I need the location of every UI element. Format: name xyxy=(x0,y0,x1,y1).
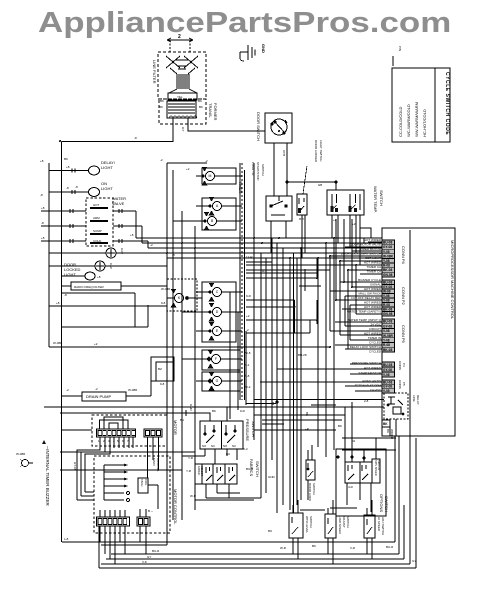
svg-text:LOW SPEED: LOW SPEED xyxy=(338,516,342,535)
svg-text:YEL: YEL xyxy=(177,95,183,99)
svg-text:CONN P4: CONN P4 xyxy=(401,246,406,265)
svg-text:SIGNAL: SIGNAL xyxy=(370,283,381,287)
svg-text:A: A xyxy=(216,204,219,208)
svg-text:W-R: W-R xyxy=(280,546,287,550)
svg-text:SWITCH: SWITCH xyxy=(261,164,265,176)
svg-text:SWITCH: SWITCH xyxy=(379,190,384,206)
svg-text:HOT WIRED: HOT WIRED xyxy=(364,238,382,242)
svg-text:BK: BK xyxy=(386,429,390,433)
svg-text:V-8: V-8 xyxy=(142,560,147,564)
svg-text:CC-COLD/COLD: CC-COLD/COLD xyxy=(398,106,403,137)
svg-text:VALVE: VALVE xyxy=(112,201,125,206)
svg-text:W-08R: W-08R xyxy=(161,287,171,291)
svg-text:-2: -2 xyxy=(205,159,208,163)
svg-text:CYCLED: CYCLED xyxy=(369,350,382,354)
svg-text:TRANS-: TRANS- xyxy=(208,103,213,119)
svg-text:ARM: ARM xyxy=(93,216,100,220)
svg-text:SWITCH: SWITCH xyxy=(251,421,256,437)
svg-text:R-08: R-08 xyxy=(383,343,390,347)
svg-text:HOT WIRED: HOT WIRED xyxy=(364,332,382,336)
svg-text:+2: +2 xyxy=(352,222,356,226)
svg-text:LIGHT SWITCH: LIGHT SWITCH xyxy=(319,140,323,161)
svg-text:TIMER CA: TIMER CA xyxy=(367,265,381,269)
svg-text:DET LIGHT: DET LIGHT xyxy=(365,256,381,260)
svg-text:P4: P4 xyxy=(402,363,406,367)
svg-text:BK: BK xyxy=(199,105,203,109)
svg-text:W-R: W-R xyxy=(190,494,197,498)
svg-text:CONN: CONN xyxy=(398,380,402,389)
svg-text:W-2: W-2 xyxy=(245,385,251,389)
svg-text:BK: BK xyxy=(64,157,68,161)
svg-text:MOTOR: MOTOR xyxy=(173,420,178,435)
svg-text:-2: -2 xyxy=(66,388,69,392)
svg-text:G: G xyxy=(216,379,219,383)
svg-text:W-08: W-08 xyxy=(383,290,391,294)
svg-text:MAIN: MAIN xyxy=(152,458,156,466)
svg-text:FORMER: FORMER xyxy=(213,103,218,120)
svg-text:GY: GY xyxy=(181,127,185,131)
svg-text:DOOR MOTOR VALVE: DOOR MOTOR VALVE xyxy=(350,243,381,247)
svg-text:-2: -2 xyxy=(95,387,98,391)
svg-text:LINE: LINE xyxy=(412,395,416,402)
svg-text:─INTERNAL TIMER BUZZER: ─INTERNAL TIMER BUZZER xyxy=(45,445,50,506)
svg-text:RELAY: RELAY xyxy=(416,395,420,405)
svg-text:-8: -8 xyxy=(64,293,67,297)
svg-text:W-8: W-8 xyxy=(245,351,251,355)
svg-text:BK-08: BK-08 xyxy=(383,308,392,312)
svg-text:R-08: R-08 xyxy=(383,303,390,307)
svg-text:BU: BU xyxy=(226,452,230,456)
svg-text:OPTIONS: OPTIONS xyxy=(379,494,384,512)
svg-text:-2: -2 xyxy=(246,328,249,332)
svg-text:2: 2 xyxy=(178,34,181,40)
svg-text:4: 4 xyxy=(113,439,115,443)
svg-text:NC: NC xyxy=(232,444,236,448)
svg-text:P/N: P/N xyxy=(398,46,402,51)
svg-text:9Y/8: 9Y/8 xyxy=(282,150,286,157)
svg-text:BUZZER CYCLE: BUZZER CYCLE xyxy=(358,278,381,282)
svg-text:F: F xyxy=(215,357,217,361)
svg-text:-8: -8 xyxy=(40,193,43,197)
svg-text:CIRCUIT: CIRCUIT xyxy=(369,327,381,331)
svg-text:GY: GY xyxy=(147,555,151,559)
svg-text:BU: BU xyxy=(180,418,184,422)
svg-text:V-08: V-08 xyxy=(383,373,390,377)
svg-text:E: E xyxy=(216,329,219,333)
svg-text:BU-R: BU-R xyxy=(152,549,160,553)
svg-text:ROMY ANTIS: ROMY ANTIS xyxy=(363,379,381,383)
svg-text:9-2: 9-2 xyxy=(245,363,250,367)
svg-text:HOT WIRED: HOT WIRED xyxy=(364,261,382,265)
svg-text:HC-HOT/COLD: HC-HOT/COLD xyxy=(422,109,427,137)
svg-text:GY-08: GY-08 xyxy=(383,368,392,372)
svg-text:+2: +2 xyxy=(246,314,250,318)
svg-text:TIMER IN: TIMER IN xyxy=(368,336,381,340)
svg-text:GND: GND xyxy=(268,475,276,479)
svg-text:PRESSURE: PRESSURE xyxy=(245,419,250,441)
svg-text:CYCLE SWITCH CODE: CYCLE SWITCH CODE xyxy=(444,72,450,135)
svg-text:TETRAND ST RPM: TETRAND ST RPM xyxy=(355,384,382,388)
svg-text:X-2: X-2 xyxy=(243,447,248,451)
svg-text:HOT WIRED: HOT WIRED xyxy=(364,366,382,370)
svg-text:CONN: CONN xyxy=(398,361,402,370)
svg-text:BK: BK xyxy=(198,99,202,103)
svg-text:+8: +8 xyxy=(97,275,101,279)
svg-text:DRAIN PUMP: DRAIN PUMP xyxy=(86,394,111,399)
svg-text:M: M xyxy=(209,174,212,178)
svg-text:+8: +8 xyxy=(56,301,60,305)
svg-text:GY: GY xyxy=(412,559,416,563)
svg-text:+8: +8 xyxy=(130,233,134,237)
svg-text:Y-08: Y-08 xyxy=(383,299,390,303)
svg-text:BU-08: BU-08 xyxy=(383,320,392,324)
svg-text:TIMER CA: TIMER CA xyxy=(367,270,381,274)
svg-text:TACH: TACH xyxy=(140,479,144,486)
svg-text:12-R: 12-R xyxy=(246,255,253,259)
svg-text:GY-08: GY-08 xyxy=(383,245,392,249)
svg-text:MOTOR CONTROL: MOTOR CONTROL xyxy=(173,489,178,525)
svg-text:+8: +8 xyxy=(40,159,44,163)
svg-text:+8: +8 xyxy=(41,206,45,210)
svg-text:+8: +8 xyxy=(66,165,70,169)
svg-text:GND: GND xyxy=(189,404,193,412)
svg-text:BK-08: BK-08 xyxy=(383,348,392,352)
svg-text:PUSH TO: PUSH TO xyxy=(251,162,255,176)
svg-text:NO: NO xyxy=(202,444,207,448)
svg-text:NC: NC xyxy=(211,444,215,448)
svg-text:BK: BK xyxy=(305,412,309,416)
svg-text:BK: BK xyxy=(159,105,163,109)
svg-text:-8: -8 xyxy=(66,186,69,190)
svg-text:DOOR LOCK: DOOR LOCK xyxy=(308,483,312,501)
svg-text:GY-08: GY-08 xyxy=(383,324,392,328)
svg-text:BK: BK xyxy=(212,409,216,413)
svg-text:BU-R: BU-R xyxy=(386,545,394,549)
svg-text:W-08R: W-08R xyxy=(383,254,394,258)
svg-text:MALL SW RACK: MALL SW RACK xyxy=(358,292,381,296)
svg-text:WC-WARM/COLD: WC-WARM/COLD xyxy=(406,104,411,137)
svg-text:TIMER MOTOR: TIMER MOTOR xyxy=(360,247,382,251)
svg-text:RADIO FREQ FILTER: RADIO FREQ FILTER xyxy=(74,285,104,289)
svg-text:V-08: V-08 xyxy=(383,294,390,298)
svg-text:4-R: 4-R xyxy=(348,485,354,489)
svg-text:9-R: 9-R xyxy=(240,409,246,413)
svg-text:BK: BK xyxy=(338,424,342,428)
svg-text:-8: -8 xyxy=(41,221,44,225)
svg-text:BU-28: BU-28 xyxy=(298,353,307,357)
svg-text:CONN P9: CONN P9 xyxy=(401,325,406,344)
svg-text:GN-08: GN-08 xyxy=(383,273,393,277)
svg-text:C: C xyxy=(216,290,219,294)
svg-text:STARTER/STOP: STARTER/STOP xyxy=(358,371,381,375)
svg-text:Y-R: Y-R xyxy=(186,469,192,473)
svg-text:SWITCH: SWITCH xyxy=(255,461,260,477)
svg-text:CYCLED: CYCLED xyxy=(369,341,382,345)
svg-text:WATER TEMP.: WATER TEMP. xyxy=(373,186,378,213)
svg-text:-8: -8 xyxy=(134,136,137,140)
svg-text:COIL: COIL xyxy=(144,479,148,486)
svg-text:LIGHT: LIGHT xyxy=(101,165,113,170)
svg-text:WTR LEVEL: WTR LEVEL xyxy=(305,516,309,533)
svg-text:Y-08: Y-08 xyxy=(383,259,390,263)
svg-text:9-8: 9-8 xyxy=(160,382,165,386)
svg-text:BZ: BZ xyxy=(158,367,162,371)
svg-text:HOT WIRED: HOT WIRED xyxy=(364,301,382,305)
svg-text:LINE FILTER: LINE FILTER xyxy=(152,60,157,84)
svg-text:W-08R: W-08R xyxy=(383,334,394,338)
svg-text:GY-08: GY-08 xyxy=(73,462,77,471)
svg-text:CONN P2: CONN P2 xyxy=(401,287,406,306)
svg-text:GN-08: GN-08 xyxy=(383,312,393,316)
svg-text:SUMP: SUMP xyxy=(93,229,102,233)
svg-text:DOOR LOCKED: DOOR LOCKED xyxy=(314,140,318,163)
svg-text:WATER TEMP (INPUT Q: WATER TEMP (INPUT Q xyxy=(347,318,381,322)
svg-text:9-8: 9-8 xyxy=(161,301,166,305)
svg-text:CA VDC: CA VDC xyxy=(370,388,382,392)
svg-text:R-08: R-08 xyxy=(383,264,390,268)
svg-text:4J: 4J xyxy=(352,439,356,443)
svg-text:Y-R: Y-R xyxy=(188,456,194,460)
svg-text:Y-08: Y-08 xyxy=(383,339,390,343)
svg-text:-8: -8 xyxy=(75,185,78,189)
svg-text:BU-R: BU-R xyxy=(246,467,254,471)
svg-text:COLD: COLD xyxy=(93,239,102,243)
svg-text:V-R: V-R xyxy=(350,546,356,550)
svg-text:L-8: L-8 xyxy=(64,537,69,541)
svg-text:H-2: H-2 xyxy=(262,269,267,273)
svg-text:HOT WIRED: HOT WIRED xyxy=(364,305,382,309)
svg-text:GND: GND xyxy=(261,44,266,53)
svg-text:DOOR LOCK LIGHT SWITCH: DOOR LOCK LIGHT SWITCH xyxy=(341,252,381,256)
svg-text:W-08R: W-08R xyxy=(53,341,63,345)
svg-text:LIGHT: LIGHT xyxy=(101,186,113,191)
svg-text:BU-08: BU-08 xyxy=(383,363,392,367)
svg-text:HOT WIRED: HOT WIRED xyxy=(364,287,382,291)
svg-text:BU: BU xyxy=(268,529,272,533)
svg-text:+2: +2 xyxy=(186,167,190,171)
svg-text:2-8: 2-8 xyxy=(364,399,369,403)
svg-text:9-R: 9-R xyxy=(246,294,252,298)
svg-text:9/8: 9/8 xyxy=(318,183,323,187)
svg-text:W-08R: W-08R xyxy=(128,388,138,392)
svg-text:BK: BK xyxy=(312,544,316,548)
svg-text:P5: P5 xyxy=(402,382,406,386)
svg-text:WW-WARM/WARM: WW-WARM/WARM xyxy=(414,102,419,137)
svg-text:SWITCH: SWITCH xyxy=(312,483,316,495)
svg-text:BU-08: BU-08 xyxy=(383,281,392,285)
svg-text:START/STOP: START/STOP xyxy=(256,162,260,181)
svg-text:MICROPROCESSOR MACHINE CONTROL: MICROPROCESSOR MACHINE CONTROL xyxy=(450,240,455,320)
svg-text:SWITCH: SWITCH xyxy=(377,460,381,470)
svg-text:HOT: HOT xyxy=(93,203,100,207)
svg-text:W-08R: W-08R xyxy=(16,452,26,456)
svg-text:SWITCH: SWITCH xyxy=(309,516,313,528)
svg-text:CUT-OFF RELAY REF: CUT-OFF RELAY REF xyxy=(351,296,381,300)
svg-text:B: B xyxy=(211,219,214,223)
svg-text:BU-08: BU-08 xyxy=(383,241,392,245)
svg-text:K: K xyxy=(178,296,181,300)
svg-text:ADJUST: ADJUST xyxy=(342,516,346,528)
svg-text:-2: -2 xyxy=(160,158,163,162)
svg-text:+8: +8 xyxy=(41,236,45,240)
svg-text:BK: BK xyxy=(383,422,388,426)
svg-text:GY-08: GY-08 xyxy=(383,285,392,289)
svg-text:DOOR SWITCH: DOOR SWITCH xyxy=(256,112,261,141)
svg-text:DELAY LOCK SWITCH: DELAY LOCK SWITCH xyxy=(350,345,381,349)
svg-text:9-8: 9-8 xyxy=(245,374,250,378)
svg-text:BK-08: BK-08 xyxy=(383,268,392,272)
svg-text:B ─: B ─ xyxy=(148,509,154,513)
svg-text:NO: NO xyxy=(223,444,228,448)
svg-text:V-08: V-08 xyxy=(383,389,390,393)
svg-text:SWITCH: SWITCH xyxy=(384,496,389,512)
svg-text:HI SPEED: HI SPEED xyxy=(377,517,381,532)
svg-text:TIMER: TIMER xyxy=(238,181,243,194)
svg-text:+2: +2 xyxy=(94,342,98,346)
svg-text:PRESSURE SWITCH: PRESSURE SWITCH xyxy=(352,361,381,365)
svg-text:D: D xyxy=(216,310,219,314)
svg-text:-8: -8 xyxy=(172,253,175,257)
svg-text:24 VDC: 24 VDC xyxy=(370,323,381,327)
svg-text:ADJ SWITCH: ADJ SWITCH xyxy=(381,517,385,535)
svg-text:V-08: V-08 xyxy=(383,329,390,333)
svg-text:BK: BK xyxy=(160,99,164,103)
svg-text:SWITCH: SWITCH xyxy=(346,516,350,528)
svg-text:WATER TEMP (SAFETY): WATER TEMP (SAFETY) xyxy=(347,310,381,314)
svg-text:V-08: V-08 xyxy=(383,250,390,254)
svg-text:-2: -2 xyxy=(150,243,153,247)
